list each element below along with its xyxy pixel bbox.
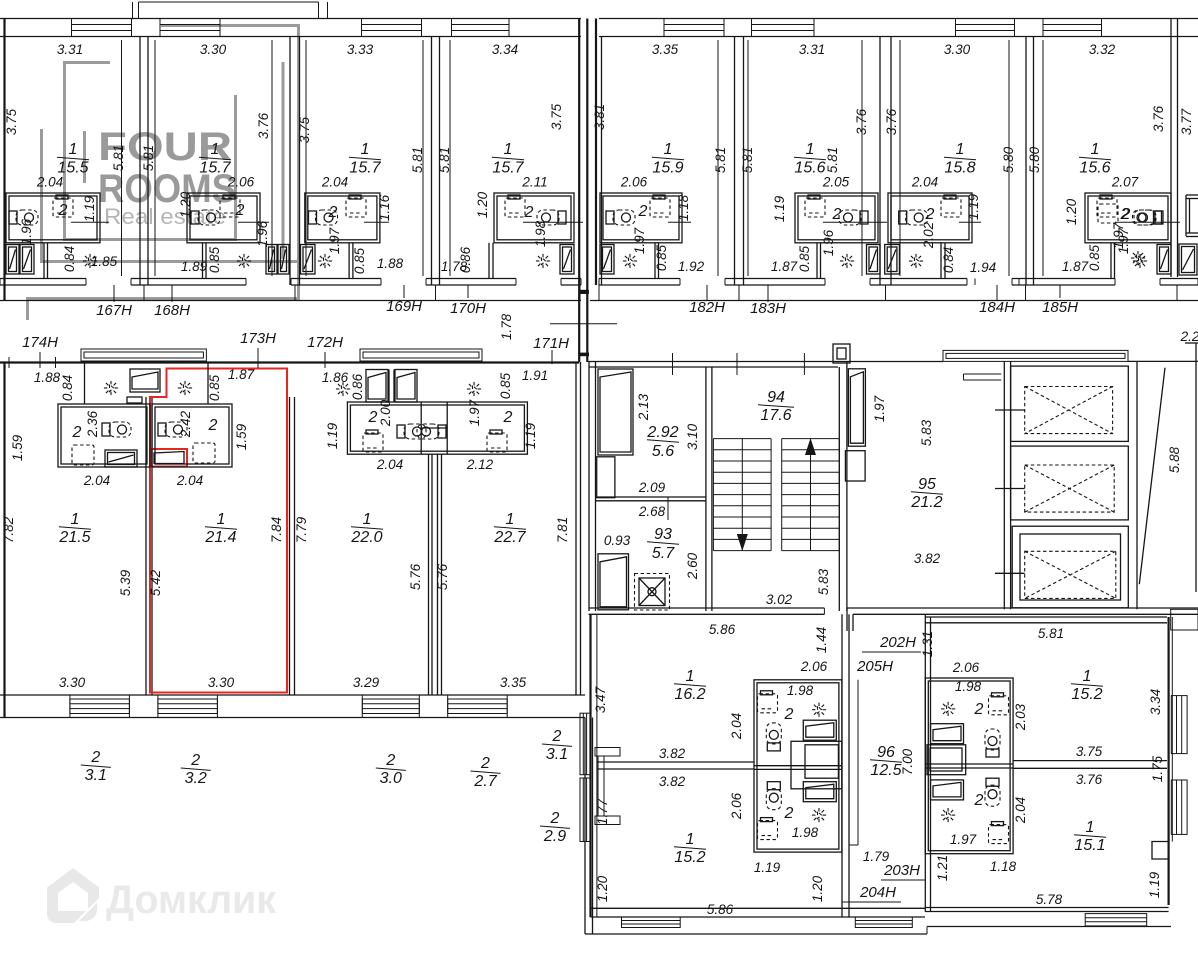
svg-text:5.88: 5.88 [1167, 446, 1182, 473]
svg-text:3.34: 3.34 [1148, 689, 1163, 715]
svg-text:2: 2 [208, 417, 218, 434]
svg-text:1.98: 1.98 [955, 679, 982, 694]
elevator door ticks [995, 409, 1025, 411]
apartment 184H inner wall [940, 243, 942, 279]
svg-text:3.29: 3.29 [353, 675, 380, 690]
svg-text:15.8: 15.8 [944, 160, 975, 177]
svg-text:1: 1 [504, 141, 513, 158]
apartment 167H sink [56, 195, 68, 199]
apartment 170H bathroom [494, 193, 574, 243]
svg-text:2.03: 2.03 [1013, 703, 1028, 731]
svg-text:7.82: 7.82 [1, 516, 16, 543]
windows top row left [72, 19, 132, 37]
svg-text:2: 2 [638, 203, 648, 220]
apartment 182H light symbol [621, 252, 639, 270]
balcony divider stubs right of terrace [595, 748, 620, 757]
elevator parapet [943, 350, 1128, 361]
vent shaft between bathrooms [791, 741, 842, 789]
svg-text:0.85: 0.85 [498, 372, 513, 399]
svg-text:2: 2 [524, 204, 534, 221]
svg-text:3.81: 3.81 [592, 104, 607, 130]
elevator shaft 3 [1012, 526, 1128, 608]
svg-text:1.19: 1.19 [966, 193, 981, 220]
svg-text:1: 1 [361, 141, 370, 158]
svg-text:1.19: 1.19 [523, 422, 538, 449]
apartment 168H light symbol [235, 252, 253, 270]
svg-text:169Н: 169Н [386, 298, 422, 315]
room 93 balcony door [598, 554, 629, 610]
svg-text:2: 2 [925, 206, 935, 223]
svg-text:3.75: 3.75 [549, 103, 564, 130]
corridor inner wall segs [848, 680, 850, 845]
bottom wall stair block [589, 607, 825, 609]
svg-text:183Н: 183Н [750, 300, 786, 317]
svg-text:1.20: 1.20 [178, 191, 193, 218]
apartment 168H sink [223, 195, 235, 199]
unit wall 167/168 [139, 37, 141, 286]
svg-text:2.12: 2.12 [466, 457, 494, 472]
svg-text:7.00: 7.00 [900, 748, 915, 775]
apartment 170H shower trays [560, 245, 574, 275]
svg-text:173Н: 173Н [240, 330, 276, 347]
svg-text:3.31: 3.31 [799, 42, 825, 57]
elevator shaft 2 [1011, 446, 1129, 520]
svg-text:3.1: 3.1 [546, 746, 568, 763]
svg-text:1.96: 1.96 [19, 218, 34, 245]
svg-text:1.19: 1.19 [325, 422, 340, 449]
svg-text:7.79: 7.79 [294, 516, 309, 543]
apt 173 bathroom [152, 404, 232, 467]
outer top wall right block [599, 18, 1198, 20]
svg-text:5.81: 5.81 [713, 147, 728, 173]
svg-text:3.35: 3.35 [500, 675, 527, 690]
apartment 183H shower trays [867, 245, 881, 275]
svg-text:1.96: 1.96 [255, 220, 270, 247]
svg-text:2: 2 [784, 805, 794, 822]
lower corridor line [0, 300, 581, 302]
svg-text:203Н: 203Н [883, 862, 920, 879]
svg-text:5.81: 5.81 [141, 145, 156, 171]
svg-text:0.85: 0.85 [207, 246, 222, 273]
svg-text:21.4: 21.4 [204, 529, 236, 546]
svg-text:3.82: 3.82 [659, 746, 686, 761]
bottom wall top-left block [0, 278, 86, 280]
svg-text:1.91: 1.91 [522, 368, 548, 383]
wall 173/172 [289, 397, 291, 695]
watermark FOUR ROOMS frame [28, 26, 299, 321]
svg-text:0.85: 0.85 [654, 244, 669, 271]
svg-text:93: 93 [654, 526, 672, 543]
balcony box above 172/171 [360, 349, 482, 361]
apartment 170H sink [508, 195, 520, 199]
upper bathroom fixtures [761, 691, 773, 695]
svg-text:3.31: 3.31 [57, 42, 83, 57]
right wall notch [1152, 842, 1169, 860]
svg-text:3.76: 3.76 [256, 112, 271, 139]
svg-text:2: 2 [503, 409, 513, 426]
svg-text:15.6: 15.6 [1079, 160, 1110, 177]
svg-text:1.18: 1.18 [990, 859, 1017, 874]
svg-text:1.88: 1.88 [377, 256, 404, 271]
svg-text:1.97: 1.97 [872, 395, 887, 422]
apartment 185H toilet [1133, 210, 1162, 225]
svg-text:1.20: 1.20 [475, 191, 490, 218]
svg-text:2.06: 2.06 [800, 659, 828, 674]
svg-text:168Н: 168Н [154, 302, 190, 319]
svg-text:5.81: 5.81 [111, 145, 126, 171]
svg-text:171Н: 171Н [533, 335, 569, 352]
svg-text:15.2: 15.2 [674, 849, 705, 866]
svg-text:2: 2 [552, 728, 562, 745]
svg-text:5.83: 5.83 [816, 568, 831, 595]
svg-text:21.2: 21.2 [910, 494, 942, 511]
svg-text:2: 2 [385, 752, 395, 769]
svg-text:5.81: 5.81 [825, 147, 840, 173]
svg-text:1: 1 [956, 141, 965, 158]
svg-text:5.83: 5.83 [919, 419, 934, 446]
svg-text:0.93: 0.93 [604, 533, 631, 548]
svg-text:0.85: 0.85 [207, 374, 222, 401]
svg-text:2.9: 2.9 [543, 828, 566, 845]
svg-text:2.68: 2.68 [638, 504, 666, 519]
red small rect fixture [151, 449, 187, 467]
svg-text:202Н: 202Н [879, 634, 916, 651]
svg-text:167Н: 167Н [96, 302, 132, 319]
svg-text:3.76: 3.76 [884, 108, 899, 135]
svg-text:1: 1 [506, 511, 515, 528]
svg-text:1.78: 1.78 [441, 259, 468, 274]
svg-text:94: 94 [767, 389, 785, 406]
svg-text:1.16: 1.16 [377, 194, 392, 221]
apartment 182H toilet [606, 210, 635, 225]
bottom wall left block [591, 907, 926, 909]
svg-text:12.5: 12.5 [870, 762, 901, 779]
apartment 167H light symbol [81, 252, 99, 270]
svg-text:1.87: 1.87 [228, 367, 255, 382]
apartment 183H light symbol [838, 252, 856, 270]
unit wall 169/170 [431, 37, 433, 286]
svg-text:96: 96 [877, 744, 895, 761]
svg-text:1: 1 [217, 511, 226, 528]
svg-text:2.04: 2.04 [36, 175, 63, 190]
svg-text:0.85: 0.85 [797, 245, 812, 272]
svg-text:2: 2 [72, 424, 82, 441]
upper-floor balcony dividers [139, 1, 319, 3]
svg-text:1: 1 [71, 511, 80, 528]
bottom wall top-right block [599, 278, 680, 280]
svg-text:2: 2 [974, 792, 984, 809]
svg-text:1.20: 1.20 [810, 875, 825, 902]
svg-text:1.19: 1.19 [772, 195, 787, 222]
svg-text:3.47: 3.47 [593, 686, 608, 713]
stairwell flights [713, 438, 771, 440]
room 92 walls [705, 367, 707, 611]
lower corridor line right [590, 300, 1198, 302]
svg-text:3.76: 3.76 [1151, 105, 1166, 132]
svg-text:174Н: 174Н [22, 334, 58, 351]
apartment 167H bathroom [6, 193, 100, 243]
apt 174 bathroom [58, 404, 150, 467]
svg-text:2.04: 2.04 [911, 175, 938, 190]
svg-text:3.02: 3.02 [766, 592, 793, 607]
svg-text:1: 1 [1083, 668, 1092, 685]
right outer wall bottom block [1167, 617, 1169, 905]
left bottom block outer walls [589, 614, 591, 917]
unit wall 183/184 [879, 37, 881, 286]
svg-text:2.04: 2.04 [176, 473, 203, 488]
svg-text:2: 2 [368, 409, 378, 426]
apartment 170H inner wall [488, 243, 490, 279]
svg-text:7.81: 7.81 [555, 517, 570, 543]
room 93 shower X [635, 574, 670, 611]
svg-text:3.82: 3.82 [914, 551, 941, 566]
svg-text:170Н: 170Н [450, 300, 486, 317]
apartment 170H toilet [537, 210, 566, 225]
svg-text:3.30: 3.30 [200, 42, 227, 57]
apartment 167H inner wall [43, 243, 45, 279]
svg-text:21.5: 21.5 [58, 529, 90, 546]
svg-text:3.0: 3.0 [380, 770, 402, 787]
svg-text:5.86: 5.86 [707, 902, 734, 917]
top wall stair block [589, 361, 944, 363]
svg-text:5.7: 5.7 [652, 545, 675, 562]
svg-text:184Н: 184Н [979, 299, 1015, 316]
svg-text:0.84: 0.84 [62, 246, 77, 272]
svg-text:7.84: 7.84 [269, 517, 284, 543]
svg-text:2.06: 2.06 [620, 175, 648, 190]
red highlight unit 173H [150, 369, 287, 693]
apartment 182H bathroom [600, 193, 682, 243]
left wall windows [580, 713, 590, 775]
apartment 168H inner wall [202, 243, 204, 279]
apartment 169H inner wall [348, 243, 350, 279]
svg-text:1.19: 1.19 [754, 860, 781, 875]
svg-text:17.6: 17.6 [760, 407, 791, 424]
stair arrows [737, 534, 748, 551]
bathroom cluster right block [925, 678, 1013, 854]
svg-text:3.30: 3.30 [944, 42, 971, 57]
svg-text:2.11: 2.11 [521, 175, 547, 190]
room 92 door leaf [598, 369, 633, 455]
svg-text:1.19: 1.19 [1147, 871, 1162, 898]
svg-text:1.20: 1.20 [595, 875, 610, 902]
apartment 183H sink [808, 195, 820, 199]
svg-text:5.76: 5.76 [408, 563, 423, 590]
outer bottom line [585, 933, 927, 935]
svg-text:2.00: 2.00 [378, 399, 393, 427]
svg-text:2.36: 2.36 [85, 410, 100, 438]
left outer wall [3, 19, 5, 301]
corridor 95 nook [964, 373, 1002, 375]
svg-text:3.34: 3.34 [492, 42, 518, 57]
svg-text:5.80: 5.80 [1027, 146, 1042, 173]
bathroom cluster left block [754, 680, 842, 852]
apartment 182H shower trays [600, 245, 614, 275]
svg-text:2.42: 2.42 [178, 410, 193, 438]
svg-text:2.04: 2.04 [729, 713, 744, 740]
svg-text:2: 2 [480, 755, 490, 772]
apartment 182H inner wall [654, 243, 656, 279]
right area diagonal wall [1136, 361, 1138, 609]
apartment 169H sink [349, 195, 361, 199]
apartment 182H sink [653, 195, 665, 199]
svg-text:2.04: 2.04 [83, 473, 110, 488]
apartment 168H toilet [191, 210, 220, 225]
apartment 169H toilet [309, 210, 338, 225]
svg-text:3.1: 3.1 [85, 767, 107, 784]
windows top row right [664, 19, 724, 37]
svg-text:1: 1 [806, 141, 815, 158]
left wall stair block [588, 362, 590, 612]
svg-text:1.97: 1.97 [950, 832, 977, 847]
svg-text:15.6: 15.6 [794, 160, 825, 177]
upper bathroom fixtures right [992, 693, 1004, 697]
svg-text:1.75: 1.75 [1150, 755, 1165, 782]
svg-text:3.76: 3.76 [1076, 772, 1103, 787]
svg-text:3.30: 3.30 [59, 675, 86, 690]
svg-text:15.2: 15.2 [1071, 686, 1102, 703]
svg-text:3.2: 3.2 [185, 770, 207, 787]
svg-text:1.31: 1.31 [920, 631, 935, 657]
svg-text:1: 1 [363, 511, 372, 528]
svg-text:2: 2 [1121, 206, 1131, 223]
unit wall 182/183 [734, 37, 736, 286]
dimension extension lines top rows [121, 40, 123, 276]
svg-text:182Н: 182Н [689, 299, 725, 316]
svg-text:205Н: 205Н [856, 658, 893, 675]
svg-text:Домклик: Домклик [106, 878, 277, 922]
svg-text:2.05: 2.05 [822, 175, 850, 190]
apartment 170H light symbol [534, 252, 552, 270]
svg-text:15.9: 15.9 [652, 160, 683, 177]
svg-text:2: 2 [550, 810, 560, 827]
svg-text:2.04: 2.04 [376, 457, 403, 472]
svg-text:0.84: 0.84 [60, 375, 75, 401]
svg-text:15.7: 15.7 [492, 160, 524, 177]
corridor 95 door leaf [848, 369, 865, 446]
svg-text:16.2: 16.2 [674, 686, 705, 703]
apartment 185H shower trays [1157, 245, 1171, 275]
svg-text:2: 2 [58, 202, 68, 219]
svg-text:1.77: 1.77 [595, 798, 610, 825]
svg-text:0.85: 0.85 [1087, 244, 1102, 271]
apartment 184H sink [944, 195, 956, 199]
svg-text:2.06: 2.06 [729, 792, 744, 820]
elevator shaft 1 [1011, 366, 1129, 441]
elevator hall left wall [1003, 361, 1005, 609]
svg-text:1.96: 1.96 [821, 229, 836, 256]
partial apartment toilet [1134, 210, 1163, 225]
svg-text:5.86: 5.86 [709, 622, 736, 637]
bottom wall right block [925, 907, 1168, 909]
svg-text:1: 1 [69, 141, 78, 158]
svg-text:0.84: 0.84 [941, 247, 956, 273]
svg-text:1.97: 1.97 [1116, 227, 1131, 254]
bottom right corner box mid block [1171, 609, 1198, 630]
top wall mid-left block [0, 361, 579, 363]
svg-text:2: 2 [328, 204, 338, 221]
svg-text:1.98: 1.98 [533, 220, 548, 247]
svg-text:3.10: 3.10 [685, 423, 700, 450]
shaft box on wall [833, 344, 850, 363]
svg-text:1: 1 [1086, 819, 1095, 836]
svg-text:1.97: 1.97 [632, 227, 647, 254]
lower bathroom fixtures [761, 818, 773, 822]
apartment 168H shower trays [266, 245, 277, 275]
right wall of left bottom block [841, 614, 843, 917]
svg-text:2: 2 [974, 701, 984, 718]
wall 171 right / corridor [575, 362, 577, 695]
lower bathroom fixtures right [992, 822, 1004, 826]
svg-text:1.18: 1.18 [676, 194, 691, 221]
svg-text:3.30: 3.30 [208, 675, 235, 690]
svg-text:2.7: 2.7 [473, 773, 497, 790]
svg-text:0.85: 0.85 [352, 247, 367, 274]
svg-text:1.20: 1.20 [1064, 198, 1079, 225]
wall 170/corridor shaft [578, 19, 580, 363]
svg-text:3.33: 3.33 [347, 42, 374, 57]
balcony box above 174/173 [81, 349, 206, 361]
svg-text:2: 2 [235, 202, 245, 219]
svg-text:2: 2 [190, 752, 200, 769]
svg-text:3.77: 3.77 [1179, 108, 1194, 135]
svg-text:5.78: 5.78 [1036, 892, 1063, 907]
svg-text:2.07: 2.07 [1111, 175, 1139, 190]
apartment 168H bathroom [187, 193, 260, 243]
svg-text:1.97: 1.97 [327, 227, 342, 254]
apartment 169H bathroom [305, 193, 380, 243]
svg-text:1.21: 1.21 [935, 855, 950, 881]
svg-text:1.88: 1.88 [34, 370, 61, 385]
svg-text:3.75: 3.75 [4, 108, 19, 135]
apartment 185H inner wall [1110, 243, 1112, 279]
apartment 184H bathroom [888, 193, 972, 243]
svg-text:1.59: 1.59 [10, 434, 25, 461]
svg-text:1.98: 1.98 [792, 825, 819, 840]
svg-text:1.94: 1.94 [970, 260, 996, 275]
svg-text:3.32: 3.32 [1089, 42, 1116, 57]
svg-text:3.75: 3.75 [1076, 744, 1103, 759]
svg-text:1: 1 [686, 831, 695, 848]
apartment 183H inner wall [816, 243, 818, 279]
apartment 185H bathroom [1085, 193, 1171, 243]
apartment 169H light symbol [316, 252, 334, 270]
svg-text:2.06: 2.06 [952, 660, 980, 675]
svg-text:1.59: 1.59 [234, 423, 249, 450]
apartment 169H shower trays [301, 245, 316, 275]
apartment 184H toilet [899, 210, 928, 225]
svg-text:1: 1 [664, 141, 673, 158]
apartment 185H sink [1100, 195, 1112, 199]
svg-text:2: 2 [90, 749, 100, 766]
watermark Domklik icon [47, 868, 99, 923]
svg-text:2.06: 2.06 [227, 175, 255, 190]
svg-text:1: 1 [686, 668, 695, 685]
svg-text:1.78: 1.78 [499, 313, 514, 340]
svg-text:1: 1 [1091, 141, 1100, 158]
svg-text:2.04: 2.04 [1013, 797, 1028, 824]
svg-text:185Н: 185Н [1042, 299, 1078, 316]
apartment 167H shower trays [6, 245, 19, 275]
svg-text:5.42: 5.42 [148, 569, 163, 596]
svg-text:5.81: 5.81 [1038, 626, 1064, 641]
svg-text:1.86: 1.86 [322, 370, 349, 385]
svg-text:2.92: 2.92 [646, 424, 678, 441]
svg-text:1.19: 1.19 [82, 195, 97, 222]
svg-text:2.13: 2.13 [636, 393, 651, 421]
bottom wall mid-left block with windows [0, 694, 585, 696]
right bottom block [924, 614, 926, 912]
